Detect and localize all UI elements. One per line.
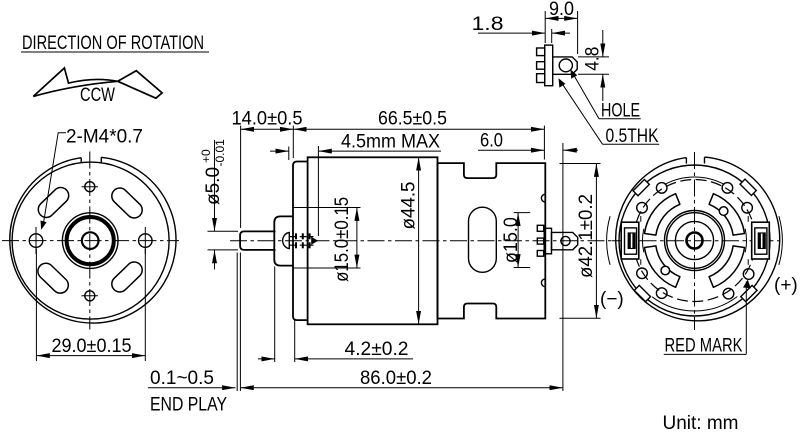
ext line endcap rear (86/6.0) [562,143,564,391]
dim 29.0 extension lines [35,249,37,362]
svg-text:4.2±0.2: 4.2±0.2 [345,339,409,360]
pocket arc right [745,229,746,252]
mounting hole left [29,234,43,248]
svg-text:86.0±0.2: 86.0±0.2 [360,368,432,389]
vertical centerline [694,152,696,330]
inner rim circle [619,165,770,316]
shaft circle [687,233,703,249]
svg-text:6.0: 6.0 [480,131,503,152]
horizontal centerline [2,240,179,242]
4 rim tabs [740,179,756,195]
bottom small hole [85,291,95,301]
4.5mm ext line [317,146,319,236]
dim 9.0 ext lines [544,11,546,43]
RED MARK leader [745,282,747,355]
face bump top [541,194,545,202]
horizontal centerline [612,240,779,242]
svg-text:66.5±0.5: 66.5±0.5 [378,109,447,130]
4 vent band slots [645,194,745,288]
mounting hole right [139,234,153,248]
svg-text:9.0: 9.0 [549,0,574,20]
svg-text:END PLAY: END PLAY [150,395,227,416]
pocket arc left [642,229,643,252]
rear terminal tab (side) [552,232,578,249]
6.0 dim left arrow [478,149,544,151]
middle circle [675,221,713,259]
front plate [293,162,308,321]
bottom arc segment [652,297,737,311]
bulge arc right [779,216,782,265]
2 small holes NE SW [719,207,728,216]
hole [559,59,572,72]
svg-text:(+): (+) [774,275,798,296]
label ø44.5 (rotated) [399,182,420,230]
4.2 left arrow [258,358,275,360]
dim 4.8 ext lines [578,56,609,58]
ext line plate rear [551,29,553,43]
svg-text:2-M4*0.7: 2-M4*0.7 [66,126,143,147]
label 4.8 (rotated) [583,47,604,71]
knurl end arrow [311,237,318,245]
ext line plate face top [292,126,294,158]
label ø42.1±0.2 (rotated) [576,194,597,278]
right terminal pocket verticals [747,216,749,222]
svg-text:ø5.0: ø5.0 [203,167,224,205]
svg-text:RED MARK: RED MARK [665,336,743,357]
dashed bolt circle [634,180,756,302]
svg-text:29.0±0.15: 29.0±0.15 [52,336,132,357]
ø44.5 dim line [418,157,420,324]
dim line 29.0 [36,355,145,357]
dim 4.8 arrows [602,30,604,57]
vent slot NW [35,184,72,221]
svg-text:4.5mm MAX: 4.5mm MAX [341,131,440,152]
ø42.1 dim line [595,164,597,319]
push washer dome [283,233,290,249]
svg-text:0.1~0.5: 0.1~0.5 [150,368,214,389]
0.5THK leader [561,82,603,145]
ext line endcap face top [543,126,545,160]
svg-text:ø15.0±0.15: ø15.0±0.15 [332,197,353,282]
outer circle with top notch [616,157,780,321]
hidden shaft lines [289,236,313,238]
end play ext lines [236,253,238,392]
vent slot SW [35,260,72,297]
svg-text:(−): (−) [600,289,624,310]
8 holes on bolt circle [637,183,754,299]
boss thick ring [67,217,114,264]
vent slot NE [108,185,145,222]
inner circle [12,162,169,319]
ø5.0 dim arrows [214,140,216,231]
ccw arrow [33,68,162,98]
svg-text:ø42.1±0.2: ø42.1±0.2 [576,194,597,278]
dim line 9.0 [545,17,577,19]
4.2 ext lines [274,267,276,363]
outer circle with top notch [10,157,176,323]
endcap vent stadium [469,207,497,272]
label ø15.0 rear (rotated) [501,217,522,263]
ø42.1 ext lines [560,163,601,165]
svg-text:4.8: 4.8 [583,47,604,71]
ext line shaft tip top [240,126,242,228]
dim 1.8 leader left [478,32,545,34]
right terminal nested rects [752,222,770,259]
6.0 dim right arrow [563,149,578,151]
dim line 66.5 [293,128,544,130]
svg-text:CCW: CCW [80,85,115,106]
shaft circle [82,232,99,249]
ø15.0 rear dim line [517,213,519,268]
plate [545,45,553,86]
label ø15.0±0.15 (rotated) [332,197,353,282]
4.2 dim line [295,358,413,360]
main can [308,157,438,324]
front boss [274,216,293,265]
teeth [537,48,545,83]
knurl dashes [296,233,310,248]
svg-text:Unit: mm: Unit: mm [663,413,739,432]
svg-text:-0.01: -0.01 [213,139,227,167]
svg-text:DIRECTION OF ROTATION: DIRECTION OF ROTATION [22,33,204,54]
leader 2-M4*0.7 [44,133,67,223]
boss outer thin circle [62,213,118,269]
svg-text:ø44.5: ø44.5 [399,182,420,230]
4.5mm dim line [318,150,441,152]
svg-text:ø15.0: ø15.0 [501,217,522,263]
ø15.0 rear ext lines [514,212,531,214]
tab [553,57,578,74]
left terminal nested rects [621,222,639,259]
left terminal pocket verticals [640,216,642,222]
face bump bottom [541,279,545,287]
dim 1.8 right arrow [552,32,570,34]
label ø5.0 +0 -0.01 (rotated) [199,139,227,205]
end play leader [148,387,236,389]
dim line 14.0 [241,128,294,130]
HOLE leader [573,73,599,118]
boss double circle [665,211,725,271]
ø15.0±0.15 ext lines [293,207,361,209]
svg-text:1.8: 1.8 [472,14,504,35]
top small hole [85,182,95,192]
label: DIRECTION OF ROTATION [21,33,209,54]
dim line 86.0 [240,387,563,389]
4.5mm MAX: left arrow [270,150,289,152]
bulge arc left [607,216,610,265]
vent slot SE [108,259,145,296]
rear terminal teeth (side) [537,225,543,256]
endcap outline with notches [438,163,546,318]
solid top arc [665,177,725,184]
ø15.0±0.15 dim line [356,208,358,269]
svg-text:14.0±0.5: 14.0±0.5 [232,109,303,130]
rear terminal hole (side) [561,236,570,245]
shaft [240,231,275,250]
svg-text:+0: +0 [199,149,213,163]
vertical centerline [89,152,91,330]
rear terminal plate (side) [544,228,551,254]
main centerline [230,240,612,242]
